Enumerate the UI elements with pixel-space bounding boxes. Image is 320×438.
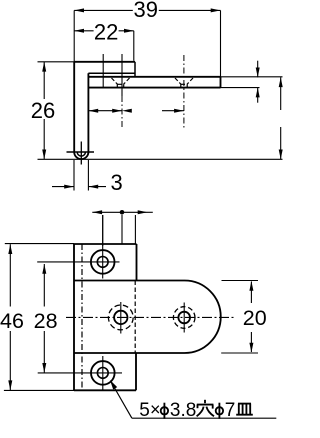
dim 26 arrowheads	[42, 62, 46, 72]
countersink hole 2 hidden lines	[175, 78, 193, 88]
svg-text:×: ×	[150, 400, 161, 420]
leg tip crosshair vertical	[80, 142, 82, 165]
centerline hole column B	[121, 54, 123, 96]
chain dim extension lines	[102, 215, 104, 246]
dim 22 dimension line	[74, 30, 134, 32]
dim 46 dimension line	[9, 244, 11, 306]
right side height dim arrows	[280, 77, 282, 110]
top hole centerlines (horizontal doubles as 28 top extension)	[37, 261, 119, 263]
leader line from bottom hole to note	[110, 380, 117, 390]
middle hole countersink hidden circle	[108, 305, 133, 330]
tab hole	[178, 312, 190, 324]
plate top edge	[74, 243, 137, 245]
tab hole countersink hidden circle	[173, 307, 195, 329]
dim 3 right extension line	[87, 160, 89, 191]
leg right edge	[87, 73, 89, 152]
svg-text:26: 26	[31, 98, 55, 123]
raised portion right step edge	[134, 62, 136, 77]
dim 39 left extension line	[73, 10, 75, 61]
hidden line right	[134, 281, 136, 354]
top hole countersunk	[91, 250, 115, 274]
middle hole vertical centerline	[120, 302, 122, 334]
tab bottom edge	[74, 352, 185, 354]
plate left edge	[73, 244, 75, 390]
hidden bend line left	[81, 244, 83, 390]
dim 26 top extension line	[38, 61, 75, 63]
raised portion top edge	[74, 61, 135, 63]
dim 39 text	[133, 2, 159, 18]
tab rounded end	[185, 281, 221, 354]
kanji hole (ana)	[197, 400, 214, 417]
svg-text:3: 3	[110, 170, 122, 195]
leg left edge	[73, 62, 75, 152]
dim 3 left extension line	[73, 160, 75, 191]
dim 3 dimension lines with outside arrowheads	[52, 186, 74, 188]
internal dimension to hole2	[162, 110, 184, 112]
horizontal centerline through middle holes	[66, 316, 236, 318]
dim 46 extension lines	[5, 243, 74, 245]
leg tip inner roll arc	[77, 152, 85, 156]
dim 26 bottom extension line (runs full width under top view)	[38, 158, 283, 160]
dim 22 arrowheads	[74, 29, 84, 33]
svg-text:7: 7	[225, 400, 236, 421]
plate bottom edge	[88, 87, 220, 89]
svg-text:5: 5	[139, 400, 150, 421]
svg-text:28: 28	[34, 309, 58, 333]
plate bottom edge extension to right dim	[221, 87, 260, 89]
svg-text:39: 39	[133, 0, 157, 22]
dim 20 dimension line	[250, 282, 252, 304]
tab hole vertical centerline	[183, 303, 185, 333]
bottom hole centerlines (horizontal doubles as 28 bottom extension)	[38, 372, 122, 374]
tab top edge	[74, 280, 185, 282]
svg-text:22: 22	[94, 20, 118, 45]
dim 20 extension lines	[222, 280, 259, 282]
dim 26 dimension line	[43, 62, 45, 99]
raised portion bottom edge	[88, 72, 135, 74]
internal dimension leg face to hole1	[88, 110, 122, 112]
note text 5 x phi3.8 hole phi7 countersunk	[139, 400, 253, 422]
dim 39 dimension line	[74, 9, 220, 11]
plate bottom edge	[74, 389, 136, 391]
plate right upper edge	[136, 244, 138, 281]
bottom hole countersunk	[91, 361, 115, 385]
phi glyph 2	[216, 403, 223, 419]
leg rounded tip	[74, 152, 88, 159]
phi glyph 1	[161, 403, 168, 419]
countersink hole 1 hidden lines	[112, 78, 130, 88]
plate right edge	[220, 77, 222, 88]
leg tip crosshair horizontal	[67, 151, 95, 153]
plate right lower edge	[135, 353, 137, 390]
chain dimension line at top	[92, 211, 147, 213]
svg-text:46: 46	[0, 309, 24, 333]
plate top edge	[88, 76, 220, 78]
dim 22 text	[94, 24, 119, 40]
dim 22 right extension line	[133, 31, 135, 61]
svg-text:3.8: 3.8	[170, 400, 196, 421]
kanji dish (countersunk)	[236, 404, 253, 415]
svg-text:20: 20	[243, 306, 267, 330]
dim 28 dimension line	[43, 264, 45, 307]
middle hole	[114, 311, 127, 324]
right side thickness dim arrows	[257, 61, 259, 78]
projection line hole column A	[102, 54, 104, 88]
centerline hole 2	[183, 55, 185, 128]
dim 39 arrowheads	[74, 8, 84, 12]
dim 39 right extension line	[220, 10, 222, 76]
plate top edge extension to right dims	[221, 76, 283, 78]
